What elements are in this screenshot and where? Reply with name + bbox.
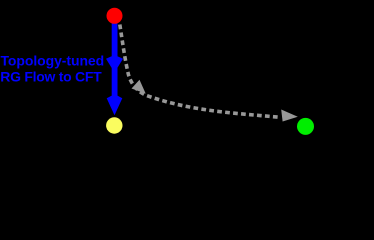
node red UV fixed point	[107, 8, 123, 24]
node green fixed point	[297, 118, 314, 135]
wire gray dashed trajectory	[120, 25, 280, 118]
blue end arrowhead	[107, 96, 123, 116]
gray mid arrowhead	[132, 80, 146, 94]
label Topology-tuned RG Flow to CFT	[0, 53, 104, 85]
gray end arrowhead	[281, 110, 298, 122]
node yellow IR fixed point (CFT)	[106, 117, 122, 133]
svg-text:Topology-tuned: Topology-tuned	[1, 53, 105, 69]
wire blue RG flow shaft	[112, 16, 118, 101]
blue mid arrowhead	[106, 56, 123, 72]
svg-text:RG Flow to CFT: RG Flow to CFT	[0, 69, 102, 85]
